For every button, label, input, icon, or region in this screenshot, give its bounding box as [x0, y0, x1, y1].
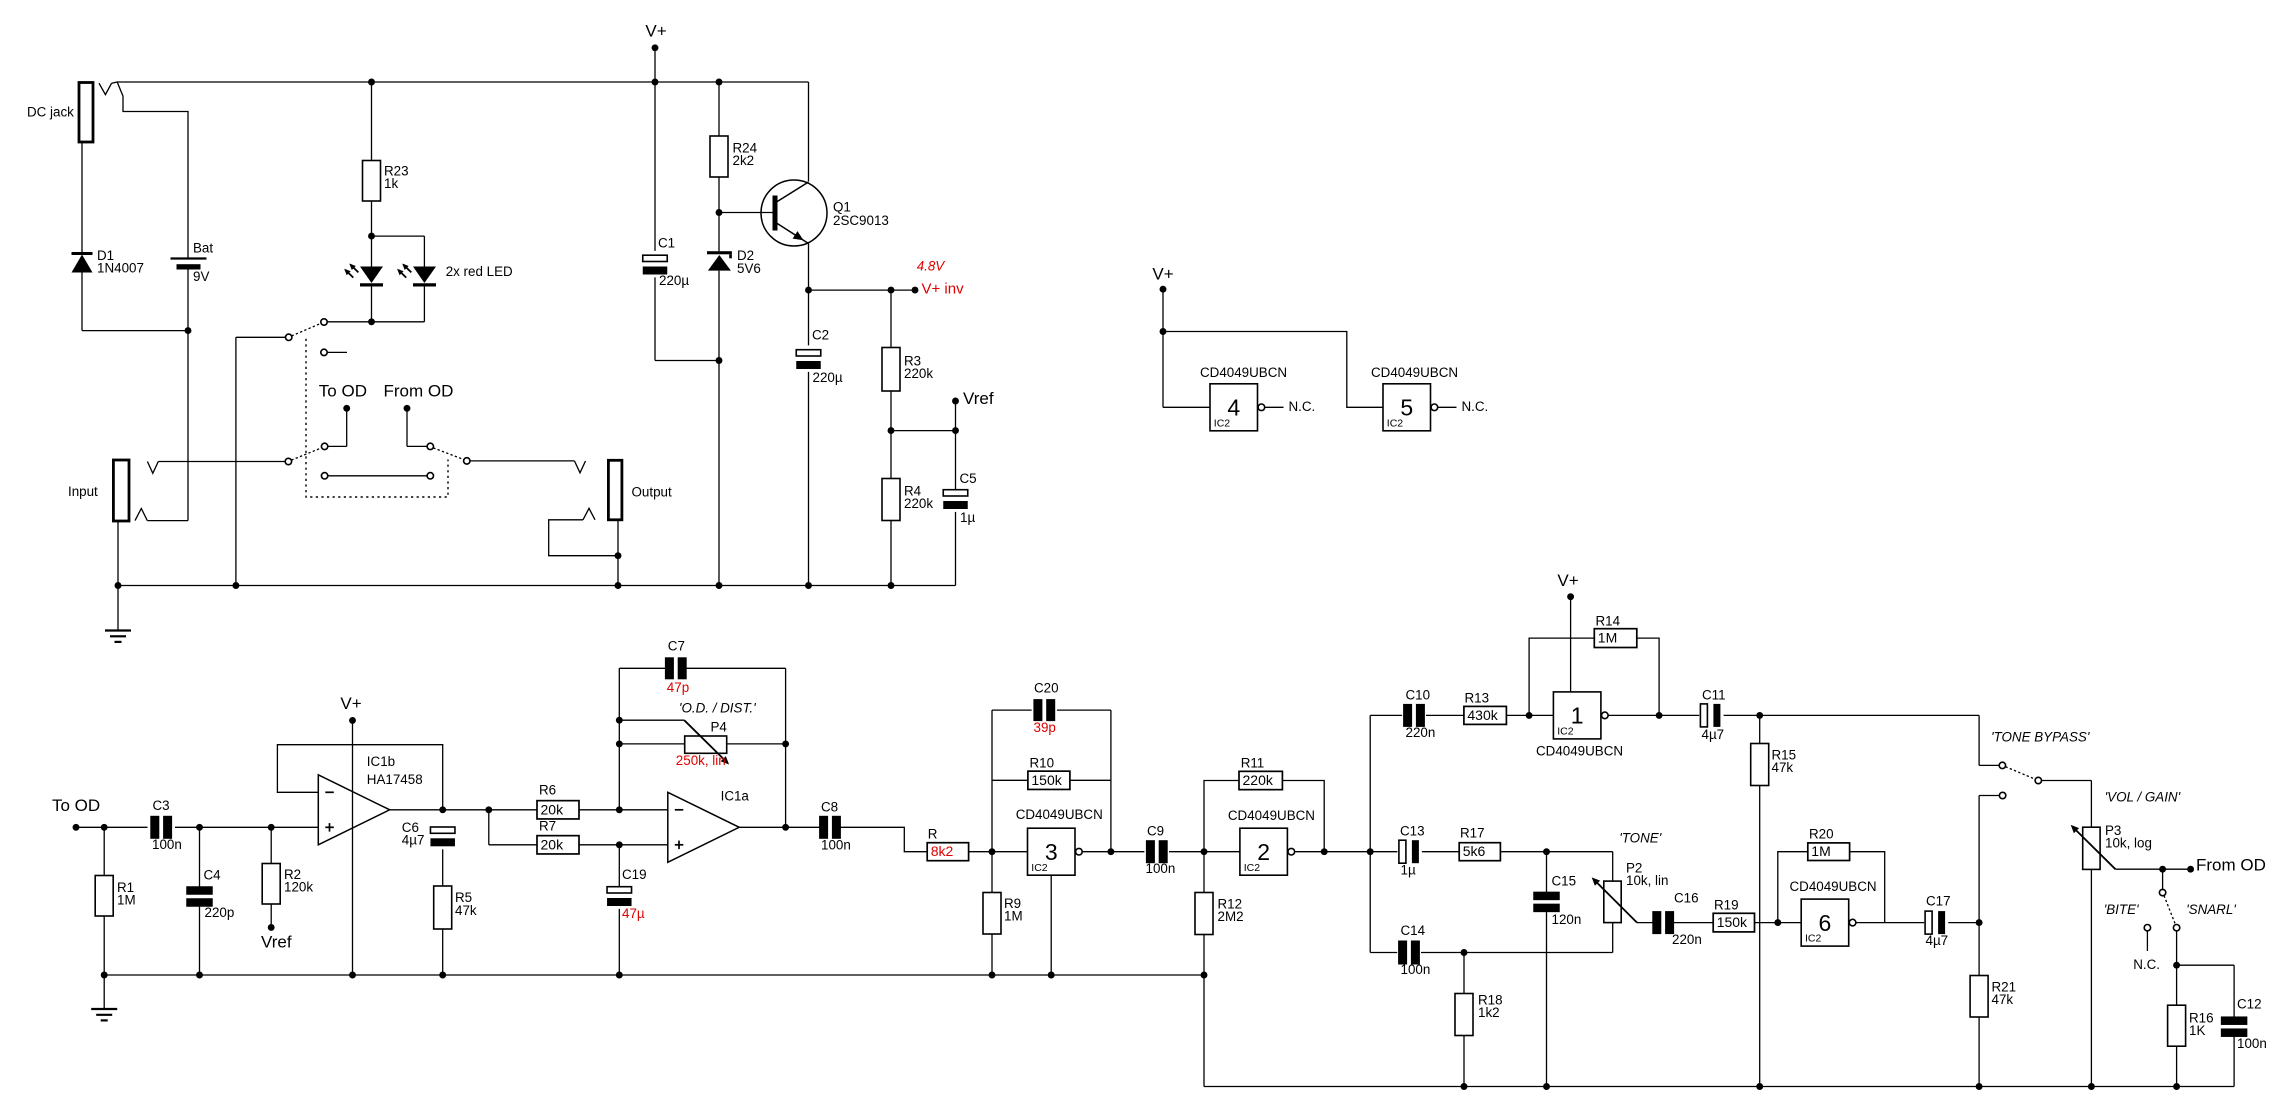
- svg-text:IC2: IC2: [1214, 417, 1231, 429]
- resistor R16 1K: [2176, 965, 2178, 1005]
- resistor R18 1k2: [1463, 953, 1465, 994]
- wire: R3 to Vref node: [890, 391, 892, 431]
- wire: lower ground rail B: [1204, 1086, 2234, 1088]
- svg-text:From OD: From OD: [2196, 855, 2266, 874]
- svg-text:120k: 120k: [284, 880, 313, 895]
- svg-text:430k: 430k: [1467, 707, 1498, 723]
- svg-text:R14: R14: [1596, 614, 1621, 629]
- svg-text:From OD: From OD: [384, 381, 454, 400]
- resistor R20 1M feedback: [1778, 852, 1808, 923]
- wire: input tip to switch pole 2: [158, 461, 285, 463]
- svg-text:Output: Output: [632, 485, 672, 500]
- svg-text:C5: C5: [960, 471, 977, 486]
- ground (top section): [117, 586, 119, 631]
- svg-text:R7: R7: [539, 819, 556, 834]
- svg-text:IC1b: IC1b: [367, 754, 395, 769]
- LED D-LED2 (red): [413, 267, 436, 284]
- wire: R12 to rail: [1203, 935, 1205, 976]
- svg-text:2k2: 2k2: [733, 153, 755, 168]
- svg-text:'VOL / GAIN': 'VOL / GAIN': [2105, 790, 2181, 805]
- node: V+ branch to gates 4/5: [1160, 328, 1167, 335]
- svg-text:To OD: To OD: [52, 796, 100, 815]
- svg-text:C2: C2: [812, 328, 829, 343]
- svg-text:CD4049UBCN: CD4049UBCN: [1371, 365, 1458, 380]
- svg-text:C3: C3: [153, 798, 170, 813]
- svg-text:R19: R19: [1714, 898, 1739, 913]
- svg-text:N.C.: N.C.: [1289, 399, 1316, 414]
- svg-text:1k2: 1k2: [1478, 1005, 1500, 1020]
- capacitor C10 220n: [1403, 704, 1412, 727]
- svg-text:220k: 220k: [904, 366, 933, 381]
- wire: R1 to rail: [103, 916, 105, 975]
- wire: R19 to gate 6 input: [1755, 922, 1802, 924]
- ground (bottom section): [103, 975, 105, 1009]
- wire: lower ground rail A: [104, 974, 1204, 976]
- svg-text:Vref: Vref: [963, 389, 994, 408]
- capacitor C4 220p: [199, 827, 201, 887]
- svg-text:IC2: IC2: [1244, 862, 1261, 874]
- zener diode D2 5V6: [718, 213, 720, 252]
- wire: DC jack to battery: [112, 82, 188, 258]
- svg-text:4µ7: 4µ7: [1926, 933, 1949, 948]
- wire: gate3 feedback right branch: [1110, 710, 1112, 852]
- wire: R17 to P2: [1500, 851, 1612, 853]
- svg-text:250k, lin: 250k, lin: [676, 753, 726, 768]
- wire: IC1b feedback loop: [277, 745, 442, 810]
- svg-text:R10: R10: [1030, 756, 1055, 771]
- wire: gate 3 ground pin: [1050, 875, 1052, 975]
- wire: C3 to C4 node: [175, 826, 318, 828]
- wire: gate 1 output to C11: [1608, 714, 1699, 716]
- wire: pole1 to ground rail: [236, 336, 285, 338]
- svg-text:'TONE': 'TONE': [1619, 831, 1662, 846]
- output jack: [608, 460, 622, 520]
- svg-text:1N4007: 1N4007: [97, 261, 144, 276]
- resistor R4 220k: [890, 431, 892, 479]
- svg-text:V+: V+: [1557, 571, 1578, 590]
- svg-text:C9: C9: [1147, 824, 1164, 839]
- svg-text:9V: 9V: [193, 269, 209, 284]
- wire: gate2 feedback (R11): [1204, 781, 1239, 852]
- wire: C19 to rail: [618, 909, 620, 975]
- wire: battery junction down to input sleeve: [187, 331, 189, 521]
- svg-text:220p: 220p: [205, 905, 235, 920]
- capacitor C1 220u: [654, 82, 656, 251]
- node: D1/battery junction: [81, 273, 83, 331]
- svg-text:C13: C13: [1400, 824, 1425, 839]
- svg-text:220µ: 220µ: [813, 370, 843, 385]
- wire: C2 to rail: [808, 372, 810, 586]
- capacitor C8 100n: [819, 816, 828, 839]
- svg-text:N.C.: N.C.: [1462, 399, 1489, 414]
- wire: R6 to IC1a inverting input: [579, 809, 619, 811]
- resistor R14 1M feedback: [1529, 638, 1594, 715]
- wire: gate 3 output to C9: [1082, 851, 1144, 853]
- capacitor C19 47u: [618, 845, 620, 887]
- capacitor C9 100n: [1146, 840, 1155, 863]
- svg-text:2SC9013: 2SC9013: [833, 213, 889, 228]
- svg-text:V+ inv: V+ inv: [922, 280, 965, 297]
- wire: tone bypass throw to P3: [2042, 780, 2092, 782]
- capacitor C3 100n: [150, 816, 159, 839]
- capacitor C15 120n: [1546, 852, 1548, 893]
- LED D-LED1 (red): [360, 267, 383, 284]
- diode D1 1N4007: [81, 142, 83, 254]
- svg-text:'BITE': 'BITE': [2104, 902, 2139, 917]
- svg-text:10k, log: 10k, log: [2105, 836, 2152, 851]
- wire: second contact down to volume node: [1978, 796, 1980, 923]
- wire: R15 to rail: [1759, 786, 1761, 1087]
- svg-text:39p: 39p: [1034, 720, 1056, 735]
- svg-text:1k: 1k: [384, 176, 398, 191]
- resistor R9 1M: [991, 852, 993, 893]
- resistor R5 47k: [434, 886, 452, 929]
- wire: gate 6 output to C17: [1856, 922, 1924, 924]
- svg-text:C7: C7: [668, 639, 685, 654]
- svg-text:1µ: 1µ: [960, 510, 975, 525]
- wire: C12 to rail: [2233, 1036, 2235, 1087]
- wire: gate3 feedback left branch: [991, 710, 993, 852]
- resistor R23 1k: [368, 79, 375, 86]
- wire: IC1b output: [390, 809, 537, 811]
- wire: C10 line from branch: [1370, 714, 1402, 716]
- wire: R4 to rail: [890, 521, 892, 586]
- capacitor C12 100n: [2177, 964, 2235, 966]
- wire: C16 to R19: [1673, 922, 1713, 924]
- wire: R23 to LED node: [371, 201, 373, 236]
- resistor R2 120k: [270, 827, 272, 863]
- svg-text:Bat: Bat: [193, 241, 213, 256]
- wire: gate 2 output: [1295, 851, 1398, 853]
- potentiometer P2 10k lin (TONE): [1612, 852, 1614, 881]
- svg-text:CD4049UBCN: CD4049UBCN: [1228, 808, 1315, 823]
- svg-text:47k: 47k: [1992, 992, 2014, 1007]
- wire: R16 to rail: [2176, 1046, 2178, 1086]
- svg-text:R: R: [928, 827, 938, 842]
- node To OD (top): [328, 445, 347, 447]
- switch pole 3 (output): [427, 443, 433, 449]
- svg-text:CD4049UBCN: CD4049UBCN: [1200, 365, 1287, 380]
- resistor R21 47k: [1978, 923, 1980, 976]
- wire: V+ terminal to rail: [654, 48, 656, 82]
- wire: LEDs to switch: [371, 287, 373, 322]
- svg-text:100n: 100n: [152, 837, 182, 852]
- wire: D2 to rail: [718, 271, 720, 586]
- svg-text:C8: C8: [821, 800, 838, 815]
- output jack sleeve contact: [583, 508, 595, 520]
- svg-text:R17: R17: [1460, 826, 1485, 841]
- svg-text:IC2: IC2: [1387, 417, 1404, 429]
- svg-text:C4: C4: [204, 868, 222, 883]
- wire: R5 to rail: [442, 929, 444, 975]
- switch 'BITE'/'SNARL': [2162, 869, 2164, 889]
- capacitor C17 4u7: [1925, 911, 1932, 934]
- wire: top section ground rail: [118, 585, 956, 587]
- wire: C1 to D2 branch: [654, 277, 656, 360]
- svg-text:220k: 220k: [904, 496, 933, 511]
- svg-text:C15: C15: [1552, 874, 1577, 889]
- svg-text:R13: R13: [1465, 691, 1490, 706]
- wire: to gate 4 input: [1162, 332, 1164, 408]
- transistor Q1 2SC9013: [761, 180, 827, 246]
- input jack tip contact: [147, 462, 158, 474]
- wire: C14 to P2 bottom: [1421, 952, 1613, 954]
- svg-text:4µ7: 4µ7: [402, 833, 425, 848]
- svg-text:1M: 1M: [1004, 909, 1023, 924]
- wire: rail A to rail B: [1203, 975, 1205, 1087]
- svg-text:5V6: 5V6: [737, 261, 761, 276]
- capacitor C7 47p: [619, 667, 666, 669]
- op-amp IC1a HA17458: [668, 792, 739, 862]
- capacitor C14 100n: [1370, 952, 1397, 954]
- capacitor C2 220u: [808, 290, 810, 345]
- wire: output jack down to rail: [617, 520, 619, 586]
- wire: Q1 collector to rail: [808, 82, 810, 182]
- wire: C11 to tone bypass switch: [1724, 714, 1980, 716]
- svg-text:1M: 1M: [117, 893, 136, 908]
- svg-text:C10: C10: [1406, 688, 1431, 703]
- P3 wiper: [2073, 827, 2116, 869]
- DC jack switch contact: [99, 83, 112, 94]
- svg-text:IC2: IC2: [1031, 862, 1048, 874]
- svg-text:47k: 47k: [1772, 760, 1794, 775]
- wire: C5 to rail: [955, 512, 957, 586]
- svg-text:P4: P4: [711, 720, 728, 735]
- svg-text:C1: C1: [658, 236, 675, 251]
- wire: output sleeve to ground: [549, 520, 618, 556]
- wire: R13 to gate 1 input: [1506, 714, 1553, 716]
- input jack sleeve contact: [135, 509, 147, 521]
- wire: C15 to rail: [1546, 911, 1548, 1087]
- svg-text:1µ: 1µ: [1401, 863, 1416, 878]
- svg-text:C16: C16: [1674, 891, 1699, 906]
- node From OD (top): [404, 405, 411, 412]
- wire: C4 to rail: [199, 906, 201, 975]
- svg-text:C12: C12: [2237, 997, 2262, 1012]
- wire: C8 to R: [840, 827, 927, 851]
- wire: R to gate 3 input: [969, 851, 1028, 853]
- wire: C9 to gate 2 input: [1169, 851, 1240, 853]
- wire: top V+ rail: [117, 81, 808, 83]
- svg-text:C19: C19: [622, 867, 647, 882]
- wire: C6 to R5: [442, 849, 444, 886]
- svg-text:1K: 1K: [2189, 1023, 2205, 1038]
- wire: Q1 emitter to V+inv node: [808, 244, 810, 291]
- wire: battery negative down to D1 junction: [187, 270, 189, 331]
- wire: To OD to C3: [76, 826, 148, 828]
- wire: gate 4 output N.C.: [1265, 406, 1284, 408]
- resistor R1 1M: [103, 827, 105, 875]
- op-amp IC1b HA17458 (voltage follower): [318, 775, 389, 845]
- svg-text:100n: 100n: [2237, 1036, 2267, 1051]
- svg-text:C20: C20: [1034, 681, 1059, 696]
- net Vref terminal: [891, 430, 956, 432]
- power terminal V+ (top): [652, 44, 659, 51]
- wire: V+ through IC1b to rail: [352, 720, 354, 975]
- svg-text:8k2: 8k2: [931, 843, 954, 859]
- switch tone-bypass second contact: [1999, 792, 2005, 798]
- wire: IC1a output: [739, 826, 820, 828]
- svg-text:220n: 220n: [1672, 932, 1702, 947]
- svg-text:IC1a: IC1a: [721, 789, 750, 804]
- capacitor C16 220n: [1652, 911, 1661, 934]
- wire: pole 3 to output jack: [470, 460, 575, 462]
- wire: R21 to rail: [1978, 1017, 1980, 1087]
- wire: R18 to rail: [1463, 1036, 1465, 1087]
- capacitor C6 4u7: [430, 827, 455, 833]
- svg-text:C17: C17: [1926, 894, 1951, 909]
- svg-text:'SNARL': 'SNARL': [2186, 902, 2236, 917]
- svg-text:CD4049UBCN: CD4049UBCN: [1536, 744, 1623, 759]
- wire: V+ to gate 1 supply pin: [1570, 597, 1572, 692]
- terminal From OD (bottom): [2187, 866, 2194, 873]
- power terminal V+ (gates 4/5): [1160, 286, 1167, 293]
- resistor R24 2k2: [716, 79, 723, 86]
- svg-text:1M: 1M: [1598, 630, 1617, 646]
- svg-text:220n: 220n: [1406, 725, 1436, 740]
- svg-text:IC2: IC2: [1805, 933, 1822, 945]
- wire: vertical branch to C10 and C14: [1369, 715, 1371, 952]
- P4 wiper: [619, 719, 684, 721]
- output jack tip contact: [575, 461, 586, 473]
- svg-text:IC2: IC2: [1557, 726, 1574, 738]
- wire: IC1a feedback left branch: [618, 668, 620, 810]
- wire: R9 to rail: [991, 934, 993, 975]
- resistor R3 220k: [890, 290, 892, 347]
- wire: R7 to IC1a non-inverting input: [579, 844, 668, 846]
- capacitor C20 39p: [992, 709, 1032, 711]
- wire: IC1a feedback right branch: [785, 668, 787, 827]
- svg-text:V+: V+: [1152, 264, 1173, 283]
- svg-text:To OD: To OD: [319, 381, 367, 400]
- switch pole 1 (LED): [321, 319, 327, 325]
- svg-text:C11: C11: [1702, 688, 1726, 703]
- svg-text:R20: R20: [1809, 827, 1834, 842]
- svg-text:4µ7: 4µ7: [1702, 727, 1725, 742]
- svg-text:V+: V+: [645, 21, 666, 40]
- svg-text:CD4049UBCN: CD4049UBCN: [1016, 807, 1103, 822]
- svg-text:2M2: 2M2: [1218, 909, 1244, 924]
- wire: P3 bottom to rail: [2090, 869, 2092, 1086]
- svg-text:R11: R11: [1241, 756, 1265, 771]
- wire: P2 bottom to C14 line: [1612, 923, 1614, 953]
- wire: R7 branch: [488, 810, 490, 845]
- svg-text:Input: Input: [68, 484, 98, 499]
- resistor R15 47k: [1759, 715, 1761, 743]
- svg-text:47µ: 47µ: [622, 906, 645, 921]
- wire: to gate 5 input: [1163, 332, 1383, 408]
- svg-text:47p: 47p: [667, 680, 689, 695]
- svg-text:100n: 100n: [1401, 962, 1431, 977]
- svg-text:N.C.: N.C.: [2133, 957, 2160, 972]
- svg-text:220µ: 220µ: [659, 273, 689, 288]
- inverter gate IC2 pin 1 (CD4049UBCN): [1553, 692, 1601, 739]
- wire: LED branch: [372, 235, 425, 237]
- svg-text:2x red LED: 2x red LED: [446, 264, 513, 279]
- switch bypass throw contacts: [321, 473, 327, 479]
- svg-text:DC jack: DC jack: [27, 105, 74, 120]
- svg-text:CD4049UBCN: CD4049UBCN: [1790, 879, 1877, 894]
- svg-text:100n: 100n: [821, 838, 851, 853]
- svg-text:Vref: Vref: [261, 932, 292, 951]
- wire: C17 to volume node: [1948, 922, 1979, 924]
- net label V+ inv / 4.8V: [809, 289, 916, 291]
- svg-text:120n: 120n: [1552, 912, 1582, 927]
- N.C. stub (BITE): [2146, 931, 2148, 951]
- svg-text:150k: 150k: [1717, 914, 1748, 930]
- svg-text:220k: 220k: [1243, 772, 1274, 788]
- svg-text:10k, lin: 10k, lin: [1626, 873, 1668, 888]
- bypass switch dotted outline: [306, 339, 448, 497]
- input jack: [113, 460, 129, 521]
- wire: gate 5 output N.C.: [1438, 406, 1457, 408]
- svg-text:20k: 20k: [541, 836, 565, 852]
- wire: R24 to base node: [718, 177, 720, 213]
- wire: SNARL contact to R16/C12 node: [2176, 931, 2178, 965]
- svg-text:HA17458: HA17458: [367, 772, 423, 787]
- capacitor C5 1u: [955, 431, 957, 490]
- svg-text:47k: 47k: [455, 903, 477, 918]
- svg-text:'TONE BYPASS': 'TONE BYPASS': [1991, 730, 2090, 745]
- svg-text:1M: 1M: [1811, 843, 1830, 859]
- svg-text:R6: R6: [539, 783, 556, 798]
- switch pole 2 (input): [285, 458, 291, 464]
- svg-text:'O.D. / DIST.': 'O.D. / DIST.': [679, 701, 756, 716]
- capacitor C11 4u7: [1700, 704, 1707, 727]
- DC jack: [79, 83, 93, 143]
- wire: C13 to R17: [1422, 851, 1459, 853]
- svg-text:5k6: 5k6: [1463, 843, 1486, 859]
- P2 wiper: [1594, 880, 1637, 923]
- net Vref (R2): [270, 904, 272, 927]
- wire: input jack to ground: [117, 521, 119, 586]
- wire: C10 to R13: [1426, 714, 1464, 716]
- svg-text:150k: 150k: [1031, 772, 1062, 788]
- svg-text:100n: 100n: [1146, 861, 1176, 876]
- switch pole 1 unused throw: [321, 349, 327, 355]
- capacitor C13 1u: [1399, 840, 1406, 863]
- svg-text:4.8V: 4.8V: [917, 259, 946, 274]
- resistor R12 2M2: [1203, 852, 1205, 893]
- svg-text:20k: 20k: [541, 801, 565, 817]
- svg-text:C14: C14: [1401, 923, 1426, 938]
- svg-text:V+: V+: [340, 694, 361, 713]
- battery Bat 9V: [171, 257, 207, 259]
